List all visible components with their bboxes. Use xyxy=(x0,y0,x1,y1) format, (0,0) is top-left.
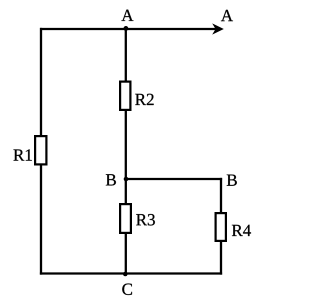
node A label above junction xyxy=(121,10,133,21)
resistor R4 value label xyxy=(232,225,251,236)
node B label at right branch xyxy=(227,175,237,186)
wire: top horizontal from left corner to arrow at node A xyxy=(40,28,217,30)
node C junction dot xyxy=(123,272,128,277)
resistor R1 value label xyxy=(13,149,31,160)
resistor R4 (body) xyxy=(216,213,226,241)
resistor R2 (body) xyxy=(120,82,130,110)
wire: left vertical branch through R1 xyxy=(40,28,42,275)
node C label below junction xyxy=(122,284,132,295)
node B junction dot xyxy=(124,177,129,182)
node B label left of junction xyxy=(106,174,116,185)
resistor R1 (body) xyxy=(35,136,46,164)
node A junction dot xyxy=(124,26,129,31)
wire: horizontal from node B to right branch xyxy=(126,178,222,180)
wire: right vertical branch through R4 xyxy=(220,178,222,275)
resistor R2 value label xyxy=(135,94,153,105)
resistor R3 value label xyxy=(136,214,155,225)
wire: middle vertical branch through R2 and R3 xyxy=(125,28,127,275)
resistor R3 (body) xyxy=(120,204,131,233)
node A terminal label at arrow tip xyxy=(221,10,233,21)
arrow out of node A (current direction toward terminal A) xyxy=(214,25,222,33)
wire: bottom horizontal through node C xyxy=(40,272,222,274)
